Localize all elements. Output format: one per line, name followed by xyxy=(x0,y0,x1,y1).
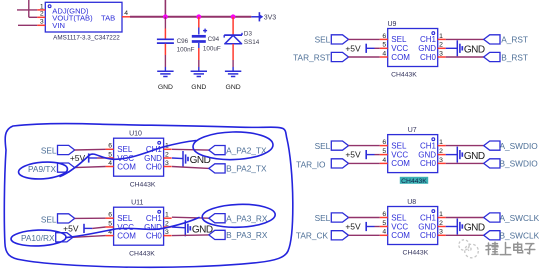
svg-text:3: 3 xyxy=(439,229,443,236)
ground right of U7 xyxy=(457,147,485,163)
port B_SWDIO xyxy=(484,159,539,169)
svg-text:SEL: SEL xyxy=(117,145,133,154)
svg-text:CH0: CH0 xyxy=(146,162,163,171)
svg-text:2: 2 xyxy=(165,220,169,227)
wire SEL to U11 pin6 xyxy=(75,217,106,219)
port A_PA3_RX xyxy=(209,214,268,224)
wire PA9/TX to U10 pin4 xyxy=(75,167,106,168)
wire U7 pin2 to ground xyxy=(446,154,458,156)
svg-text:6: 6 xyxy=(382,211,386,218)
svg-text:SS14: SS14 xyxy=(244,39,260,46)
svg-text:4: 4 xyxy=(382,229,386,236)
svg-text:CH443K: CH443K xyxy=(129,250,155,257)
wire SEL to U8 pin6 xyxy=(349,217,380,219)
capacitor C94 100uF polarized xyxy=(192,17,221,72)
svg-text:5: 5 xyxy=(108,151,112,158)
wire U9 pin2 to ground xyxy=(446,47,458,49)
port A_PA2_TX xyxy=(209,145,267,155)
ground under C94 xyxy=(191,71,207,91)
svg-text:C94: C94 xyxy=(208,36,220,43)
IC U7 CH443K xyxy=(380,127,446,185)
port A_RST xyxy=(484,35,528,45)
wire U7 pin3 to B_SWDIO xyxy=(446,162,484,164)
svg-text:GND: GND xyxy=(226,84,241,91)
svg-text:B_PA2_TX: B_PA2_TX xyxy=(226,164,267,174)
svg-text:VCC: VCC xyxy=(391,222,408,231)
svg-text:AMS1117-3.3_C347222: AMS1117-3.3_C347222 xyxy=(53,34,120,41)
power +5V (U9) xyxy=(345,43,374,53)
annotation swoosh PA9/TX to A_PA2_TX xyxy=(60,141,196,177)
IC U8 CH443K xyxy=(380,199,446,257)
svg-text:SEL: SEL xyxy=(41,215,57,225)
svg-text:4: 4 xyxy=(108,160,112,167)
svg-text:SEL: SEL xyxy=(391,213,407,222)
svg-text:+5V: +5V xyxy=(63,223,79,233)
wire U10 pin1 to A_PA2_TX xyxy=(172,148,209,151)
pin 4 stub xyxy=(122,16,130,18)
port A_SWCLK xyxy=(484,213,540,223)
port B_RST xyxy=(484,52,528,62)
svg-text:A_PA3_RX: A_PA3_RX xyxy=(226,214,268,224)
svg-text:VCC: VCC xyxy=(391,150,408,159)
port SEL (U11) xyxy=(41,214,75,225)
port B_PA3_RX xyxy=(209,230,268,240)
power flag 3V3 xyxy=(251,12,276,21)
svg-text:GND: GND xyxy=(418,150,436,159)
svg-text:GND: GND xyxy=(418,44,436,53)
watermark text 撞上电子 xyxy=(486,242,535,254)
svg-text:GND: GND xyxy=(158,84,173,91)
svg-text:5: 5 xyxy=(382,148,386,155)
svg-text:6: 6 xyxy=(108,143,112,150)
port B_SWCLK xyxy=(484,231,540,241)
svg-text:3: 3 xyxy=(439,50,443,57)
wire +5V to U10 pin5 xyxy=(97,157,106,159)
wire SEL to U10 pin6 xyxy=(75,148,106,151)
svg-text:D3: D3 xyxy=(244,30,253,37)
svg-text:A_RST: A_RST xyxy=(501,35,528,45)
wire PA10/RX to U11 pin4 xyxy=(73,236,106,238)
svg-text:CH1: CH1 xyxy=(420,35,437,44)
svg-text:U9: U9 xyxy=(388,21,397,28)
ground right of U10 xyxy=(183,151,211,167)
svg-text:5: 5 xyxy=(382,220,386,227)
wire U7 pin1 to A_SWDIO xyxy=(446,145,484,147)
svg-text:GND: GND xyxy=(464,45,485,56)
annotation ellipse around A_PA2_TX xyxy=(193,131,274,161)
wire +5V to U9 pin5 xyxy=(375,47,380,49)
svg-text:B_RST: B_RST xyxy=(501,52,528,62)
port B_PA2_TX xyxy=(209,164,267,174)
port SEL (U9) xyxy=(315,35,349,45)
ground under D3 xyxy=(225,71,241,91)
svg-text:CH443K: CH443K xyxy=(391,72,417,79)
svg-text:GND: GND xyxy=(418,222,436,231)
svg-text:VIN: VIN xyxy=(52,21,65,30)
svg-text:CH1: CH1 xyxy=(420,141,437,150)
svg-text:6: 6 xyxy=(108,212,112,219)
ground under C96 xyxy=(157,71,173,91)
svg-text:+5V: +5V xyxy=(345,222,361,232)
wire 3V3 rail xyxy=(130,0,251,17)
svg-text:B_SWDIO: B_SWDIO xyxy=(500,159,539,169)
svg-text:CH443K: CH443K xyxy=(130,181,156,188)
svg-text:4: 4 xyxy=(382,157,386,164)
svg-text:3: 3 xyxy=(165,229,169,236)
svg-text:3V3: 3V3 xyxy=(264,14,277,21)
svg-text:U7: U7 xyxy=(408,127,417,134)
IC U10 CH443K xyxy=(106,131,172,189)
wire U9 pin3 to B_RST xyxy=(446,56,484,58)
svg-text:5: 5 xyxy=(382,42,386,49)
svg-text:SEL: SEL xyxy=(315,35,331,45)
svg-text:100uF: 100uF xyxy=(203,45,221,52)
port SEL (U8) xyxy=(315,213,349,223)
svg-text:U10: U10 xyxy=(129,131,142,138)
svg-text:A_SWCLK: A_SWCLK xyxy=(500,213,540,223)
svg-text:CH443K: CH443K xyxy=(401,178,427,185)
svg-text:VCC: VCC xyxy=(391,44,408,53)
watermark paw logo xyxy=(459,240,479,258)
svg-text:CH0: CH0 xyxy=(420,53,437,62)
svg-text:2: 2 xyxy=(439,42,443,49)
svg-text:PA10/RX: PA10/RX xyxy=(21,233,55,243)
svg-text:2: 2 xyxy=(439,148,443,155)
svg-text:4: 4 xyxy=(382,50,386,57)
wire U11 pin1 to A_PA3_RX xyxy=(172,217,209,218)
svg-text:SEL: SEL xyxy=(391,35,407,44)
svg-text:COM: COM xyxy=(391,53,410,62)
IC U11 CH443K xyxy=(106,200,172,258)
junction dots on 3V3 rail xyxy=(163,14,236,19)
wire TAR_CK to U8 pin4 xyxy=(349,234,380,236)
annotation ellipse around A_PA3_RX xyxy=(202,203,276,228)
svg-text:CH0: CH0 xyxy=(420,159,437,168)
svg-text:5: 5 xyxy=(108,220,112,227)
svg-text:6: 6 xyxy=(382,33,386,40)
port TAR_CK xyxy=(296,231,349,241)
svg-text:1: 1 xyxy=(165,212,169,219)
svg-text:SEL: SEL xyxy=(315,141,331,151)
svg-text:1: 1 xyxy=(439,139,443,146)
wire U8 pin3 to B_SWCLK xyxy=(446,234,484,236)
svg-text:COM: COM xyxy=(117,162,136,171)
svg-text:PA9/TX: PA9/TX xyxy=(28,164,56,174)
port SEL (U10) xyxy=(41,145,75,155)
port A_SWDIO xyxy=(484,141,539,151)
port TAR_RST xyxy=(293,52,348,62)
wire U10 pin3 to B_PA2_TX xyxy=(172,167,209,169)
svg-text:1: 1 xyxy=(439,33,443,40)
power +5V (U10) xyxy=(70,153,97,163)
wire U8 pin1 to A_SWCLK xyxy=(446,217,484,219)
wire SEL to U9 pin6 xyxy=(349,38,380,40)
capacitor C96 100nF xyxy=(157,17,195,72)
svg-text:U8: U8 xyxy=(407,199,416,206)
svg-text:3: 3 xyxy=(439,157,443,164)
wire SEL to U7 pin6 xyxy=(349,145,380,147)
wire U11 pin3 to B_PA3_RX xyxy=(172,234,209,237)
wire +5V to U11 pin5 xyxy=(92,227,105,228)
annotation ellipse around PA9/TX xyxy=(18,161,68,181)
svg-text:+5V: +5V xyxy=(345,43,361,53)
wire +5V to U7 pin5 xyxy=(375,154,380,156)
wire U8 pin2 to ground xyxy=(446,226,458,228)
power +5V (U7) xyxy=(345,150,374,160)
wire vcc input branch xyxy=(17,0,37,25)
svg-text:TAR_RST: TAR_RST xyxy=(293,52,330,62)
svg-text:SEL: SEL xyxy=(315,213,331,223)
svg-text:2: 2 xyxy=(165,151,169,158)
svg-text:B_PA3_RX: B_PA3_RX xyxy=(226,230,268,240)
svg-text:B_SWCLK: B_SWCLK xyxy=(500,231,540,241)
port SEL (U7) xyxy=(315,141,349,151)
port PA9/TX xyxy=(28,163,75,174)
svg-text:3: 3 xyxy=(165,160,169,167)
svg-text:6: 6 xyxy=(382,139,386,146)
diode D3 SS14 schottky xyxy=(224,17,260,72)
power +5V (U11) xyxy=(63,223,92,233)
svg-text:TAB: TAB xyxy=(101,14,115,23)
port TAR_IO xyxy=(296,159,348,170)
svg-text:CH1: CH1 xyxy=(146,214,163,223)
wire TAR_RST to U9 pin4 xyxy=(349,56,380,58)
wire +5V to U8 pin5 xyxy=(375,226,380,228)
power +5V (U8) xyxy=(345,222,374,232)
IC U9 CH443K xyxy=(380,21,446,79)
ground right of U9 xyxy=(457,40,485,56)
port PA10/RX xyxy=(21,233,73,243)
svg-text:C96: C96 xyxy=(177,38,189,45)
svg-text:GND: GND xyxy=(464,223,485,234)
svg-text:1: 1 xyxy=(439,211,443,218)
svg-text:SEL: SEL xyxy=(117,214,133,223)
svg-text:COM: COM xyxy=(391,231,410,240)
svg-text:CH443K: CH443K xyxy=(403,250,429,257)
svg-text:GND: GND xyxy=(464,151,485,162)
svg-text:TAR_CK: TAR_CK xyxy=(296,231,329,241)
wire U11 pin2 to ground xyxy=(172,226,185,229)
ground right of U11 xyxy=(185,220,213,236)
svg-text:+5V: +5V xyxy=(345,150,361,160)
annotation ellipse around PA10/RX xyxy=(11,229,67,247)
svg-text:2: 2 xyxy=(439,220,443,227)
svg-text:A_SWDIO: A_SWDIO xyxy=(500,141,539,151)
svg-text:CH0: CH0 xyxy=(146,231,163,240)
pin stubs 1,2,3 xyxy=(37,10,45,25)
svg-text:COM: COM xyxy=(391,159,410,168)
svg-text:GND: GND xyxy=(191,84,206,91)
svg-text:100nF: 100nF xyxy=(177,46,195,53)
wire U9 pin1 to A_RST xyxy=(446,38,484,40)
svg-text:TAR_IO: TAR_IO xyxy=(296,159,326,169)
svg-text:U11: U11 xyxy=(131,200,143,207)
wire TAR_IO to U7 pin4 xyxy=(349,162,380,164)
wire U10 pin2 to ground xyxy=(172,157,183,160)
svg-text:CH1: CH1 xyxy=(420,213,437,222)
svg-text:SEL: SEL xyxy=(391,141,407,150)
annotation swoosh PA10/RX to A_PA3_RX xyxy=(66,218,199,238)
svg-text:COM: COM xyxy=(117,231,136,240)
ground right of U8 xyxy=(457,219,485,235)
annotation big loop around U10/U11 section xyxy=(4,123,293,267)
regulator U AMS1117-3.3 xyxy=(40,2,128,41)
svg-text:SEL: SEL xyxy=(41,145,57,155)
svg-text:A_PA2_TX: A_PA2_TX xyxy=(226,145,267,155)
svg-text:CH0: CH0 xyxy=(420,231,437,240)
